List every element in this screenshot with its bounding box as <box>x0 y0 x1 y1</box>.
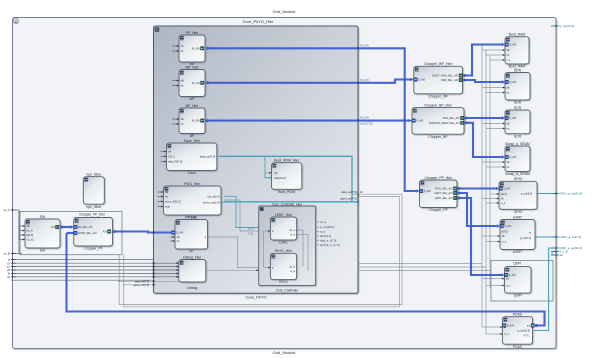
svg-text:rx_1: rx_1 <box>502 241 507 244</box>
svg-text:S_AXI: S_AXI <box>176 231 184 235</box>
svg-text:w_a: w_a <box>290 270 295 273</box>
svg-text:w_a: w_a <box>320 231 325 234</box>
svg-text:QSPI_SEL_AXI: QSPI_SEL_AXI <box>435 197 453 200</box>
svg-text:QSPI: QSPI <box>514 294 522 298</box>
svg-text:PkYO: PkYO <box>279 280 288 284</box>
svg-text:UART: UART <box>513 215 522 219</box>
svg-text:rst: rst <box>181 49 184 53</box>
svg-text:GPIO_a_out[31:0]: GPIO_a_out[31:0] <box>560 192 583 196</box>
svg-text:data_IN[7:0]: data_IN[7:0] <box>168 160 182 164</box>
svg-text:M_AXI: M_AXI <box>361 116 370 120</box>
svg-text:AXI: AXI <box>103 231 107 234</box>
svg-text:spare_out[7:0]: spare_out[7:0] <box>340 197 357 201</box>
svg-text:PWC_Hier: PWC_Hier <box>184 182 201 186</box>
svg-text:S_AXI: S_AXI <box>509 44 516 47</box>
svg-text:QSPI: QSPI <box>513 262 521 266</box>
svg-text:auto: auto <box>165 205 171 209</box>
svg-text:w_a: w_a <box>290 234 295 237</box>
svg-text:rst: rst <box>165 195 168 199</box>
svg-text:LEBC_Hier: LEBC_Hier <box>275 213 293 217</box>
svg-text:rst: rst <box>7 275 10 279</box>
svg-text:SCR_SEL_AXI: SCR_SEL_AXI <box>443 117 460 120</box>
svg-text:M_AXI: M_AXI <box>361 43 370 47</box>
svg-text:u2_a1: u2_a1 <box>27 238 35 242</box>
svg-text:DDR_SEL_AXI: DDR_SEL_AXI <box>441 79 458 82</box>
svg-text:Chopper_WF: Chopper_WF <box>428 94 448 98</box>
svg-text:PkYO_Hier: PkYO_Hier <box>275 249 293 253</box>
svg-text:Grid_Module: Grid_Module <box>273 350 297 355</box>
svg-text:x_1: x_1 <box>507 59 512 62</box>
svg-text:aux_a[2:0]: aux_a[2:0] <box>207 194 219 198</box>
svg-text:M_AXI: M_AXI <box>192 46 200 50</box>
svg-text:FP_Hier: FP_Hier <box>185 215 198 219</box>
svg-text:GPIO: GPIO <box>514 210 523 214</box>
svg-text:GPIO: GPIO <box>514 177 523 181</box>
svg-text:rx_1: rx_1 <box>504 333 509 336</box>
svg-text:a_out[31:0]: a_out[31:0] <box>517 330 530 333</box>
svg-text:Chopper_PP_Hier: Chopper_PP_Hier <box>424 176 452 180</box>
svg-text:WF_Hier: WF_Hier <box>185 65 199 69</box>
svg-text:UART_SEL_AXI: UART_SEL_AXI <box>434 192 453 195</box>
svg-text:d_tx_: d_tx_ <box>524 334 531 337</box>
svg-text:Chopper_BP: Chopper_BP <box>428 135 448 139</box>
svg-text:Core_Controller: Core_Controller <box>276 288 299 292</box>
svg-text:DDR: DDR <box>514 68 522 72</box>
svg-text:S_AXI: S_AXI <box>509 274 516 277</box>
svg-text:UART: UART <box>513 250 522 254</box>
svg-text:M_AXI: M_AXI <box>192 81 200 85</box>
svg-text:rs_1: rs_1 <box>501 202 506 205</box>
svg-text:S_AXI: S_AXI <box>509 81 516 84</box>
svg-text:SCR: SCR <box>514 106 522 110</box>
svg-text:addr[13:0]: addr[13:0] <box>274 176 286 180</box>
svg-text:rst: rst <box>507 166 510 169</box>
svg-text:S0_SEL_AXI: S0_SEL_AXI <box>78 226 93 229</box>
svg-text:S_AXI: S_AXI <box>503 188 510 191</box>
svg-text:rst: rst <box>181 84 184 88</box>
svg-text:S_AXI: S_AXI <box>504 225 511 228</box>
svg-text:Chopper_BP_Hier: Chopper_BP_Hier <box>424 103 452 107</box>
svg-text:u2_a: u2_a <box>289 228 295 232</box>
svg-text:data_IN[7:0]: data_IN[7:0] <box>135 279 149 283</box>
svg-text:Chopper_WF_Hier: Chopper_WF_Hier <box>424 62 453 66</box>
svg-text:rst: rst <box>507 54 510 57</box>
svg-text:u2_A: u2_A <box>3 208 10 212</box>
svg-text:npu_dbox: npu_dbox <box>86 173 101 177</box>
svg-text:M_AXI: M_AXI <box>361 78 370 82</box>
svg-text:PP_Hier: PP_Hier <box>186 31 199 35</box>
svg-text:data_out[7:0]: data_out[7:0] <box>200 154 215 158</box>
svg-text:EM: EM <box>40 215 45 219</box>
svg-text:a[7:0]: a[7:0] <box>502 231 509 234</box>
svg-text:SYNR_SEL_AXI: SYNR_SEL_AXI <box>78 232 97 235</box>
svg-text:spare_IN[7:0]: spare_IN[7:0] <box>133 283 149 287</box>
svg-text:Boot_ROM: Boot_ROM <box>278 190 295 194</box>
svg-text:a_out[7:0]: a_out[7:0] <box>520 237 531 240</box>
svg-text:a[1:0]: a[1:0] <box>501 193 508 196</box>
svg-text:BP_Hier: BP_Hier <box>186 104 199 108</box>
svg-text:u2_a: u2_a <box>289 264 295 268</box>
svg-text:rst: rst <box>507 92 510 95</box>
svg-text:a[13:0]_w_x[7:0]: a[13:0]_w_x[7:0] <box>320 243 340 247</box>
svg-text:w_1: w_1 <box>506 284 511 287</box>
svg-text:abc[13:0]: abc[13:0] <box>320 234 331 238</box>
svg-text:PDAS: PDAS <box>513 313 523 317</box>
svg-text:BP: BP <box>190 134 195 138</box>
svg-text:data_out[7:0]: data_out[7:0] <box>341 190 357 194</box>
svg-text:Chopper_PF: Chopper_PF <box>84 247 103 251</box>
svg-text:a[2:0]: a[2:0] <box>27 233 34 237</box>
svg-text:FP: FP <box>189 250 194 254</box>
svg-text:S_AXI: S_AXI <box>509 117 516 120</box>
svg-text:Boot_ROM_Hier: Boot_ROM_Hier <box>274 159 300 163</box>
svg-text:A_out[29:0]: A_out[29:0] <box>320 225 334 229</box>
svg-text:Chopper_PP: Chopper_PP <box>429 208 449 212</box>
svg-text:rst: rst <box>177 239 180 243</box>
svg-text:S_AXI: S_AXI <box>509 156 516 159</box>
svg-text:w_out[13:0]: w_out[13:0] <box>560 24 575 28</box>
svg-text:u2_a: u2_a <box>248 227 254 231</box>
svg-text:Core_PkYO_Hier: Core_PkYO_Hier <box>243 19 275 24</box>
svg-text:S_AXI: S_AXI <box>507 325 514 328</box>
svg-text:GPIO_SEL_AXI: GPIO_SEL_AXI <box>435 188 453 191</box>
svg-text:PDAS: PDAS <box>513 345 523 349</box>
svg-text:data_a_x[7:0]: data_a_x[7:0] <box>320 239 337 243</box>
svg-text:rst: rst <box>181 122 184 126</box>
svg-text:S_AXI: S_AXI <box>418 79 425 82</box>
svg-text:u2_B: u2_B <box>3 252 10 256</box>
svg-text:(a=[17:0]): (a=[17:0]) <box>361 121 373 125</box>
svg-text:LEBC: LEBC <box>279 241 288 245</box>
svg-text:SCR: SCR <box>514 134 522 138</box>
svg-text:rst_A: rst_A <box>27 229 33 233</box>
svg-text:Debug_Hier: Debug_Hier <box>183 255 202 259</box>
svg-text:UART_a_out[7:0]: UART_a_out[7:0] <box>560 235 582 239</box>
svg-text:dio: dio <box>560 253 564 257</box>
svg-text:rst: rst <box>507 128 510 131</box>
svg-text:WF: WF <box>189 97 194 101</box>
svg-text:EM: EM <box>40 249 45 253</box>
svg-text:Scrap_A_SRAM: Scrap_A_SRAM <box>505 172 530 176</box>
svg-text:a_out[5:0]: a_out[5:0] <box>521 193 532 196</box>
svg-text:Core_PkYO: Core_PkYO <box>245 295 266 300</box>
svg-text:servo_IN[2:0]: servo_IN[2:0] <box>165 200 181 204</box>
svg-text:CN_1: CN_1 <box>168 154 175 158</box>
svg-text:[7:0]: [7:0] <box>248 232 253 236</box>
svg-text:npu_dbox: npu_dbox <box>86 205 101 209</box>
svg-text:Chopper_PF_Hier: Chopper_PF_Hier <box>79 213 106 217</box>
svg-text:u2_a: u2_a <box>320 220 326 224</box>
svg-text:Grid_Module: Grid_Module <box>273 9 297 14</box>
svg-text:axi: axi <box>527 325 531 328</box>
svg-text:M_AXI: M_AXI <box>192 119 200 123</box>
svg-text:Trace: Trace <box>187 171 196 175</box>
svg-text:DDR: DDR <box>514 101 522 105</box>
svg-text:S_AXI: S_AXI <box>416 120 423 123</box>
svg-text:Scrap_A_SRAM: Scrap_A_SRAM <box>505 142 530 146</box>
svg-text:Debug: Debug <box>187 286 197 290</box>
svg-text:Core_Controller_Hier: Core_Controller_Hier <box>272 203 303 207</box>
svg-text:Boot_RAM: Boot_RAM <box>509 33 526 37</box>
svg-text:AXI: AXI <box>51 225 55 229</box>
svg-text:servo_out[2:0]: servo_out[2:0] <box>203 200 220 204</box>
svg-text:SCRATCH_SRAM_SEL_AXI: SCRATCH_SRAM_SEL_AXI <box>429 122 460 125</box>
svg-text:Trace_Hier: Trace_Hier <box>183 139 201 143</box>
svg-text:S_AXI: S_AXI <box>424 190 431 193</box>
svg-text:BOOT_RAM_SEL_AXI: BOOT_RAM_SEL_AXI <box>432 75 458 78</box>
